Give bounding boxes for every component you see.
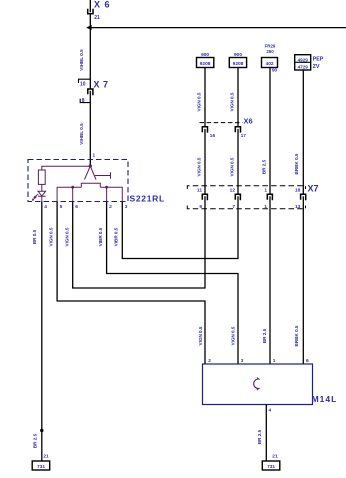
svg-text:402: 402 <box>266 61 274 67</box>
connector X7 pin 8 bracket <box>80 99 90 103</box>
svg-text:1: 1 <box>93 153 96 159</box>
fuse box reference 9208 (col 2) <box>229 58 246 68</box>
svg-text:250: 250 <box>266 49 274 54</box>
svg-text:X7: X7 <box>308 184 319 194</box>
connector X7 fork col2 <box>235 194 240 200</box>
wire: tap to pin 6 <box>72 187 74 201</box>
svg-text:8: 8 <box>82 98 85 104</box>
svg-text:VIGN 0.5: VIGN 0.5 <box>198 326 203 345</box>
svg-text:2: 2 <box>109 204 112 210</box>
fuse box reference 402 (col 3) <box>262 58 278 68</box>
motor M14L box <box>203 364 313 405</box>
svg-text:VIBR 0.5: VIBR 0.5 <box>114 227 119 246</box>
switch contact left bar to pin 5 <box>57 187 81 201</box>
svg-text:21: 21 <box>94 15 100 21</box>
svg-text:900: 900 <box>201 52 209 58</box>
wire: X6 down to X7 left <box>89 14 91 90</box>
svg-text:3: 3 <box>241 358 244 364</box>
svg-text:12: 12 <box>230 187 236 193</box>
svg-text:10: 10 <box>80 82 86 88</box>
svg-text:4929: 4929 <box>298 57 309 62</box>
svg-text:X 6: X 6 <box>94 0 111 10</box>
svg-text:S221RL: S221RL <box>130 193 165 203</box>
wire: horizontal feed to right edge <box>90 27 346 29</box>
svg-text:6: 6 <box>75 204 78 210</box>
svg-text:VIGN 0.5: VIGN 0.5 <box>229 157 234 176</box>
connector X7 fork col3 <box>267 194 272 200</box>
LED arrows <box>33 194 38 200</box>
svg-text:VIGN 0.5: VIGN 0.5 <box>229 92 234 111</box>
svg-text:2: 2 <box>208 358 211 364</box>
svg-text:BRBK 0.5: BRBK 0.5 <box>294 325 299 346</box>
connector X7 fork col4 <box>301 194 306 200</box>
wire: pin 4 ground run BR <box>41 202 43 462</box>
svg-text:4: 4 <box>44 204 47 210</box>
node: junction pin1 to lever and lamp <box>89 164 92 167</box>
connector X6 fork col1 <box>202 127 207 133</box>
wire: col4 box down to X7 <box>302 70 304 194</box>
switch S221RL dashed enclosure <box>28 160 128 202</box>
wire: pin 2 to M14L pin 3 <box>107 202 238 365</box>
connector X6 fork col2 <box>235 127 240 133</box>
svg-text:VIBR 0.5: VIBR 0.5 <box>98 227 103 246</box>
svg-text:BR 2.5: BR 2.5 <box>261 159 266 174</box>
connector X6 pin 21 (top, socket half) <box>88 9 93 14</box>
wire: col3 X7 to M14L <box>269 196 271 364</box>
connector X6 dashed link <box>200 122 243 124</box>
svg-text:BR 2.5: BR 2.5 <box>33 433 38 448</box>
svg-text:4729: 4729 <box>298 65 309 70</box>
svg-text:VIHBL 0.5: VIHBL 0.5 <box>79 49 84 71</box>
connector X7 fork col1 <box>202 194 207 200</box>
svg-text:13: 13 <box>295 204 301 210</box>
wire: LED to pin 4 <box>41 196 43 201</box>
svg-text:7: 7 <box>232 204 235 210</box>
svg-text:9: 9 <box>199 204 202 210</box>
svg-text:BRBK 0.5: BRBK 0.5 <box>294 153 299 174</box>
node: right contact tap pin 2 <box>105 186 108 189</box>
svg-text:731: 731 <box>37 464 45 470</box>
svg-text:BR 2.5: BR 2.5 <box>262 328 267 343</box>
svg-text:9208: 9208 <box>200 61 211 67</box>
svg-text:ZV: ZV <box>313 64 320 70</box>
wire: col3 box down to X7 <box>269 68 271 195</box>
wire: col1 X6 to X7 <box>204 129 206 194</box>
svg-text:X 7: X 7 <box>94 80 109 90</box>
svg-text:BR 0.5: BR 0.5 <box>32 229 37 244</box>
svg-text:FR29: FR29 <box>265 43 276 48</box>
svg-text:VIGN 0.5: VIGN 0.5 <box>65 227 70 246</box>
wire: col4 X7 to M14L <box>302 196 304 364</box>
svg-text:6: 6 <box>306 358 309 364</box>
svg-text:18: 18 <box>295 187 301 193</box>
connector X7 left fork (female half) <box>88 89 93 95</box>
svg-text:900: 900 <box>234 52 242 58</box>
svg-text:21: 21 <box>272 454 278 460</box>
node: left contact tap pin 6 <box>71 186 74 189</box>
wire: pin 6 to X7 pin 9 <box>73 196 205 288</box>
wire: X7 left down to S221RL pin 1 <box>89 91 91 166</box>
svg-text:17: 17 <box>241 133 247 139</box>
fuse box reference 9208 (col 1) <box>197 58 214 68</box>
switch contact right bar to pin 3 <box>100 187 122 201</box>
svg-text:VIGN 0.5: VIGN 0.5 <box>196 157 201 176</box>
svg-text:X6: X6 <box>244 117 253 126</box>
connector X7 strip dashed lines <box>187 186 305 189</box>
wire: pin 5 to M14L pin 1 <box>57 202 205 365</box>
svg-text:5: 5 <box>60 204 63 210</box>
switch lever (rocker) <box>85 166 97 180</box>
svg-text:VIGN 0.5: VIGN 0.5 <box>230 326 235 345</box>
reference box 4929/4729 (col 4) <box>295 55 311 70</box>
svg-text:9208: 9208 <box>233 61 244 67</box>
svg-text:1: 1 <box>264 204 267 210</box>
ground point 731 (left) <box>32 461 50 470</box>
connector X7 pin 10 bracket <box>79 79 91 83</box>
motor glyph <box>254 379 259 389</box>
node: splice on ground run <box>40 429 43 432</box>
switch contact bridge (center raised) <box>81 183 100 187</box>
resistor (illumination dropper) <box>38 170 45 184</box>
svg-text:M14L: M14L <box>312 394 338 404</box>
wire: battery feed from top into connector X6 <box>89 0 91 12</box>
wire: tap to pin 2 <box>106 187 108 201</box>
wire: pin 3 to X7 pin 7 <box>122 196 238 258</box>
svg-text:VIHBL 0.5: VIHBL 0.5 <box>79 123 84 145</box>
svg-text:16: 16 <box>210 133 216 139</box>
svg-text:BR 2.5: BR 2.5 <box>257 429 262 444</box>
svg-text:1: 1 <box>264 187 267 193</box>
svg-text:4: 4 <box>269 408 272 414</box>
wire: col1 box down to X6 <box>204 68 206 127</box>
switch knob handle <box>95 172 111 178</box>
wire: col2 X6 to X7 <box>237 129 239 194</box>
svg-text:1: 1 <box>273 358 276 364</box>
svg-text:21: 21 <box>43 454 49 460</box>
ground point 731 (mid) <box>262 461 280 470</box>
wire: link pin1 to resistor top <box>42 166 91 170</box>
svg-text:VIGN 0.5: VIGN 0.5 <box>196 92 201 111</box>
svg-text:PEP: PEP <box>313 56 324 62</box>
wire: M14L pin 4 to ground <box>265 405 267 462</box>
node: junction arrow at top tee <box>86 25 91 30</box>
svg-text:VIGN 0.5: VIGN 0.5 <box>49 227 54 246</box>
svg-text:11: 11 <box>197 187 202 193</box>
wire: col2 box down to X6 <box>237 68 239 127</box>
wire: resistor to LED <box>41 184 43 191</box>
svg-text:3: 3 <box>125 204 128 210</box>
svg-text:90: 90 <box>272 68 278 73</box>
LED lamp (illumination) <box>38 191 46 196</box>
svg-text:731: 731 <box>267 464 275 470</box>
